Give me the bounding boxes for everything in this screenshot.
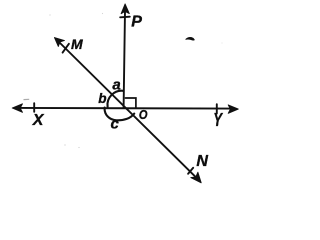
svg-text:M: M (71, 36, 83, 52)
svg-text:N: N (196, 153, 208, 170)
svg-text:X: X (32, 112, 45, 129)
svg-text:a: a (112, 76, 120, 93)
svg-text:Y: Y (213, 110, 223, 130)
svg-text:b: b (98, 91, 106, 106)
svg-text:O: O (139, 107, 148, 122)
svg-text:c: c (111, 116, 120, 133)
svg-text:P: P (131, 14, 142, 31)
